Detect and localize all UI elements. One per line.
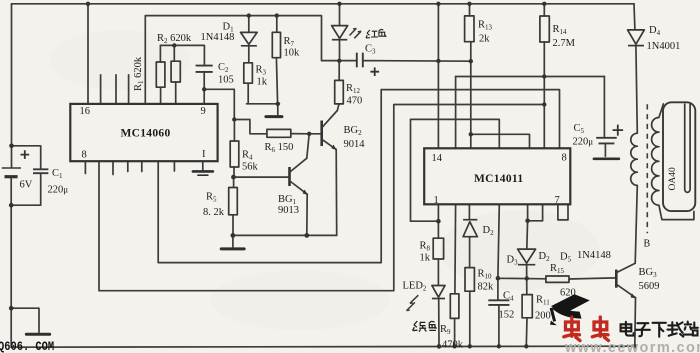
svg-text:9013: 9013 <box>278 205 299 216</box>
svg-text:1N4148: 1N4148 <box>201 32 235 43</box>
svg-text:OA40: OA40 <box>668 167 678 190</box>
node pin5 D3 <box>525 219 530 224</box>
node D3 R11 R15 <box>525 276 529 280</box>
wire MC14011 pin1 wrap to top pin <box>411 119 500 221</box>
svg-text:1N4148: 1N4148 <box>577 250 611 261</box>
LED red LED1 <box>332 26 362 40</box>
junction dots left rail <box>9 144 14 311</box>
wire MC14011 pin1 stub through R8 <box>437 204 439 238</box>
svg-text:220μ: 220μ <box>573 137 594 148</box>
svg-text:I: I <box>202 149 206 160</box>
wire R9 to bottom rail <box>454 318 456 346</box>
wire secondary top lead <box>659 104 664 118</box>
transistor BG3 <box>616 263 636 298</box>
wire MC14060 top pin stub c <box>128 75 130 104</box>
wire R11 to bottom rail <box>525 318 528 347</box>
ground at R5 emitter rail <box>221 235 244 249</box>
node BG1 emitter <box>304 233 309 238</box>
wire MC14011 pin5 stub to D3 node <box>527 204 529 221</box>
wire LED2 to bottom rail <box>438 299 440 347</box>
svg-text:105: 105 <box>218 75 234 86</box>
svg-text:2.7M: 2.7M <box>553 38 576 49</box>
wire D4 top lead <box>633 4 636 30</box>
svg-text:MC14060: MC14060 <box>121 128 171 140</box>
capacitor C3 <box>357 53 379 76</box>
wire R13 top lead <box>469 4 471 16</box>
svg-text:8: 8 <box>562 153 567 164</box>
node pin1 R8 <box>436 219 441 224</box>
wire C2 junction right and down to R4 top <box>204 89 234 119</box>
wire R4 top junction to R6 <box>234 120 267 134</box>
svg-text:Q606. COM: Q606. COM <box>0 339 54 353</box>
wire MC14060 pin16 to top rail <box>87 4 89 104</box>
wire R3 bottom lead <box>247 83 249 104</box>
wire R6 right lead to BG2 base node <box>291 133 309 135</box>
diode D4 <box>628 30 645 46</box>
wire R12 bottom to BG2 collector <box>337 104 339 111</box>
wire MC14060 osc pin up and across to C3 <box>145 16 356 104</box>
svg-text:6V: 6V <box>20 180 33 191</box>
wire ground branch bottom left <box>11 308 39 332</box>
svg-text:9014: 9014 <box>344 139 366 150</box>
transistor BG2 <box>322 111 338 151</box>
node R7 bottom <box>276 102 280 106</box>
node LED1 R12 <box>337 59 341 63</box>
wire MC14060 pin feedback second loop to MC14011 top <box>99 105 544 291</box>
wire MC14011 pin7 stub link <box>558 204 568 220</box>
svg-text:152: 152 <box>499 310 515 321</box>
junction dots top rail <box>86 2 547 6</box>
wire D1 top lead <box>248 16 250 33</box>
wire C5 bottom lead <box>604 144 606 157</box>
svg-text:9: 9 <box>201 106 206 117</box>
wire MC14011 pin2 to R9 <box>454 204 457 293</box>
wire node to R15 <box>498 277 546 280</box>
wire C4 top lead <box>497 278 499 300</box>
wire MC14060 pin feedback left loop to MC14011 pin8 top <box>158 90 559 263</box>
resistor R11 <box>522 295 532 318</box>
wire R14 bottom vertical to MC14011 top pin <box>543 42 545 148</box>
svg-text:8: 8 <box>82 150 87 161</box>
resistor R8 <box>433 238 443 259</box>
wire MC14060 top pin stub b <box>115 75 117 104</box>
transformer core dashed <box>646 104 648 233</box>
resistor R3 <box>244 63 253 83</box>
svg-text:14: 14 <box>432 153 443 164</box>
lamp OA40 envelope <box>663 102 695 211</box>
svg-text:1k: 1k <box>257 77 268 88</box>
node wire T at R14 line <box>542 102 546 106</box>
transistor BG1 <box>290 158 308 195</box>
svg-text:220μ: 220μ <box>48 185 69 196</box>
svg-text:16: 16 <box>80 106 91 117</box>
svg-text:82k: 82k <box>478 282 495 293</box>
watermark chongchong red characters <box>564 317 609 341</box>
svg-text:1N4001: 1N4001 <box>647 41 681 52</box>
wire left battery rail upper <box>11 4 13 168</box>
svg-text:1: 1 <box>434 195 439 206</box>
svg-text:200: 200 <box>535 311 551 322</box>
wire R15 to BG3 base <box>569 278 616 279</box>
wire MC14060 top pin stub a <box>100 75 102 104</box>
node C3 V+ <box>436 59 440 63</box>
wire BG2 emitter vertical <box>335 149 338 235</box>
resistor R9 <box>450 294 459 319</box>
node D1 top <box>247 13 251 17</box>
capacitor C4 <box>488 300 509 305</box>
wire battery C1 branch bottom <box>11 173 41 205</box>
IC U2 MC14011 box <box>424 148 570 204</box>
resistor R10 <box>465 268 474 292</box>
junction dots bottom rail <box>437 344 637 349</box>
svg-text:R6 150: R6 150 <box>265 142 294 154</box>
wire top supply rail <box>12 3 635 5</box>
capacitor C5 <box>596 125 623 144</box>
node R4 R5 base <box>231 175 236 180</box>
svg-text:470k: 470k <box>442 340 464 351</box>
ground at MC14060 pin1 <box>193 161 213 175</box>
wire R12 top lead <box>338 61 340 81</box>
wire emitter common <box>233 234 337 236</box>
node R13 bottom <box>469 59 473 63</box>
resistor R13 <box>465 16 474 42</box>
LED green LED2 <box>407 286 446 311</box>
wire C5 top lead <box>603 77 605 138</box>
svg-text:R2 620k: R2 620k <box>157 33 192 45</box>
wire D3 to R11 <box>526 265 528 295</box>
label red color <box>366 29 386 38</box>
capacitor C1 <box>33 169 48 173</box>
wire C2 bottom to MC14060 pin9 <box>203 72 205 104</box>
wire R14 top lead <box>543 4 545 16</box>
wire D1 to R3 <box>248 46 250 63</box>
svg-text:470: 470 <box>347 96 363 107</box>
resistor R12 <box>335 80 344 104</box>
wire MC14011 pin4 down to C4 node <box>498 204 499 278</box>
label green color <box>413 321 437 332</box>
wire D2 to R10 <box>469 237 471 268</box>
battery 6V <box>2 150 29 177</box>
diode D3 <box>518 249 536 265</box>
svg-text:7: 7 <box>555 195 560 206</box>
wire BG1 emitter vertical <box>306 194 308 235</box>
watermark dianzi xiazaizhan characters <box>621 322 698 337</box>
resistor R15 <box>546 276 569 282</box>
svg-text:www.eeworm.com: www.eeworm.com <box>564 340 700 353</box>
resistor R5 <box>229 188 238 215</box>
node C4 R15 <box>496 276 501 281</box>
wire top rail to MC14011 pin14 <box>437 4 439 149</box>
node R4 top <box>232 117 236 121</box>
wire R8 to LED2 <box>437 259 439 286</box>
wire R1 R2 tops to C2 top <box>160 45 204 65</box>
node R7 top <box>275 13 279 17</box>
IC U1 MC14060 box <box>70 104 217 161</box>
wire R3 R7 bottom common <box>247 103 280 105</box>
resistor R6 <box>267 129 291 137</box>
transformer primary winding <box>631 133 638 185</box>
wire BG2 base node to BG1 collector <box>307 134 309 158</box>
svg-text:B: B <box>644 239 651 250</box>
wire C3 right to R13 bottom <box>363 60 471 63</box>
wire MC14060 bottom pin stubs <box>85 161 174 174</box>
svg-text:8. 2k: 8. 2k <box>203 207 225 218</box>
capacitor C2 <box>196 66 213 72</box>
resistor R7 <box>272 32 280 57</box>
wire MC14011 pin3 to D2 <box>468 204 470 219</box>
wire R7 bottom lead <box>276 58 277 104</box>
wire battery C1 branch top <box>12 146 41 169</box>
wire BG3 emitter to bottom rail <box>634 298 637 347</box>
ground at C5 <box>594 158 619 161</box>
wire R7 top lead <box>276 16 278 33</box>
wire R5 leads <box>232 177 235 235</box>
wire primary coil to BG3 collector <box>635 185 637 263</box>
node C2 pin9 <box>202 87 206 91</box>
resistor R14 <box>540 16 549 42</box>
wire secondary bottom lead <box>659 205 694 219</box>
ground near R7 <box>266 104 282 117</box>
node BG2 base <box>307 132 311 136</box>
diode D1 <box>241 32 258 45</box>
wire BG2 base node to bar <box>309 133 321 135</box>
svg-text:1k: 1k <box>420 253 431 264</box>
resistor R1 <box>156 45 165 104</box>
wire R4 body leads <box>233 120 235 178</box>
node R14 bottom <box>542 74 546 78</box>
wire bottom rail <box>11 346 635 347</box>
svg-text:56k: 56k <box>242 162 259 173</box>
wire D4 to primary coil <box>636 45 637 133</box>
wire LED1 top lead <box>339 4 341 26</box>
wire tap to MC14011 top pin f <box>471 134 530 148</box>
wire C4 bottom lead <box>498 305 500 347</box>
svg-text:10k: 10k <box>284 48 301 59</box>
svg-text:2k: 2k <box>479 34 490 45</box>
wire left battery rail lower <box>10 178 12 347</box>
ground bottom left <box>26 333 49 336</box>
node R2 top <box>172 43 176 47</box>
node R5 bottom <box>231 233 236 238</box>
transformer secondary winding <box>652 118 659 206</box>
wire LED1 to R12 junction <box>339 40 341 61</box>
lamp filament hairpin <box>685 104 690 193</box>
resistor R2 <box>171 45 180 104</box>
wire BG1 base <box>234 176 289 178</box>
wire left end down to MC14011 top pin <box>455 77 457 149</box>
wire pin5 node L link to pin6 <box>528 204 543 221</box>
svg-text:R1 620k: R1 620k <box>133 56 145 91</box>
wire R10 to bottom rail <box>469 291 471 346</box>
wire R14 node across to C5 <box>456 76 605 78</box>
wire R13 bottom vertical to MC14011 top pin <box>470 42 472 149</box>
resistor R4 <box>230 141 239 167</box>
diode D2 <box>463 220 477 237</box>
watermark graduation cap <box>550 294 590 325</box>
node tap 14011 <box>469 132 473 136</box>
svg-text:5609: 5609 <box>639 281 660 292</box>
wire node to D3 <box>526 221 529 249</box>
svg-text:MC14011: MC14011 <box>474 173 523 185</box>
